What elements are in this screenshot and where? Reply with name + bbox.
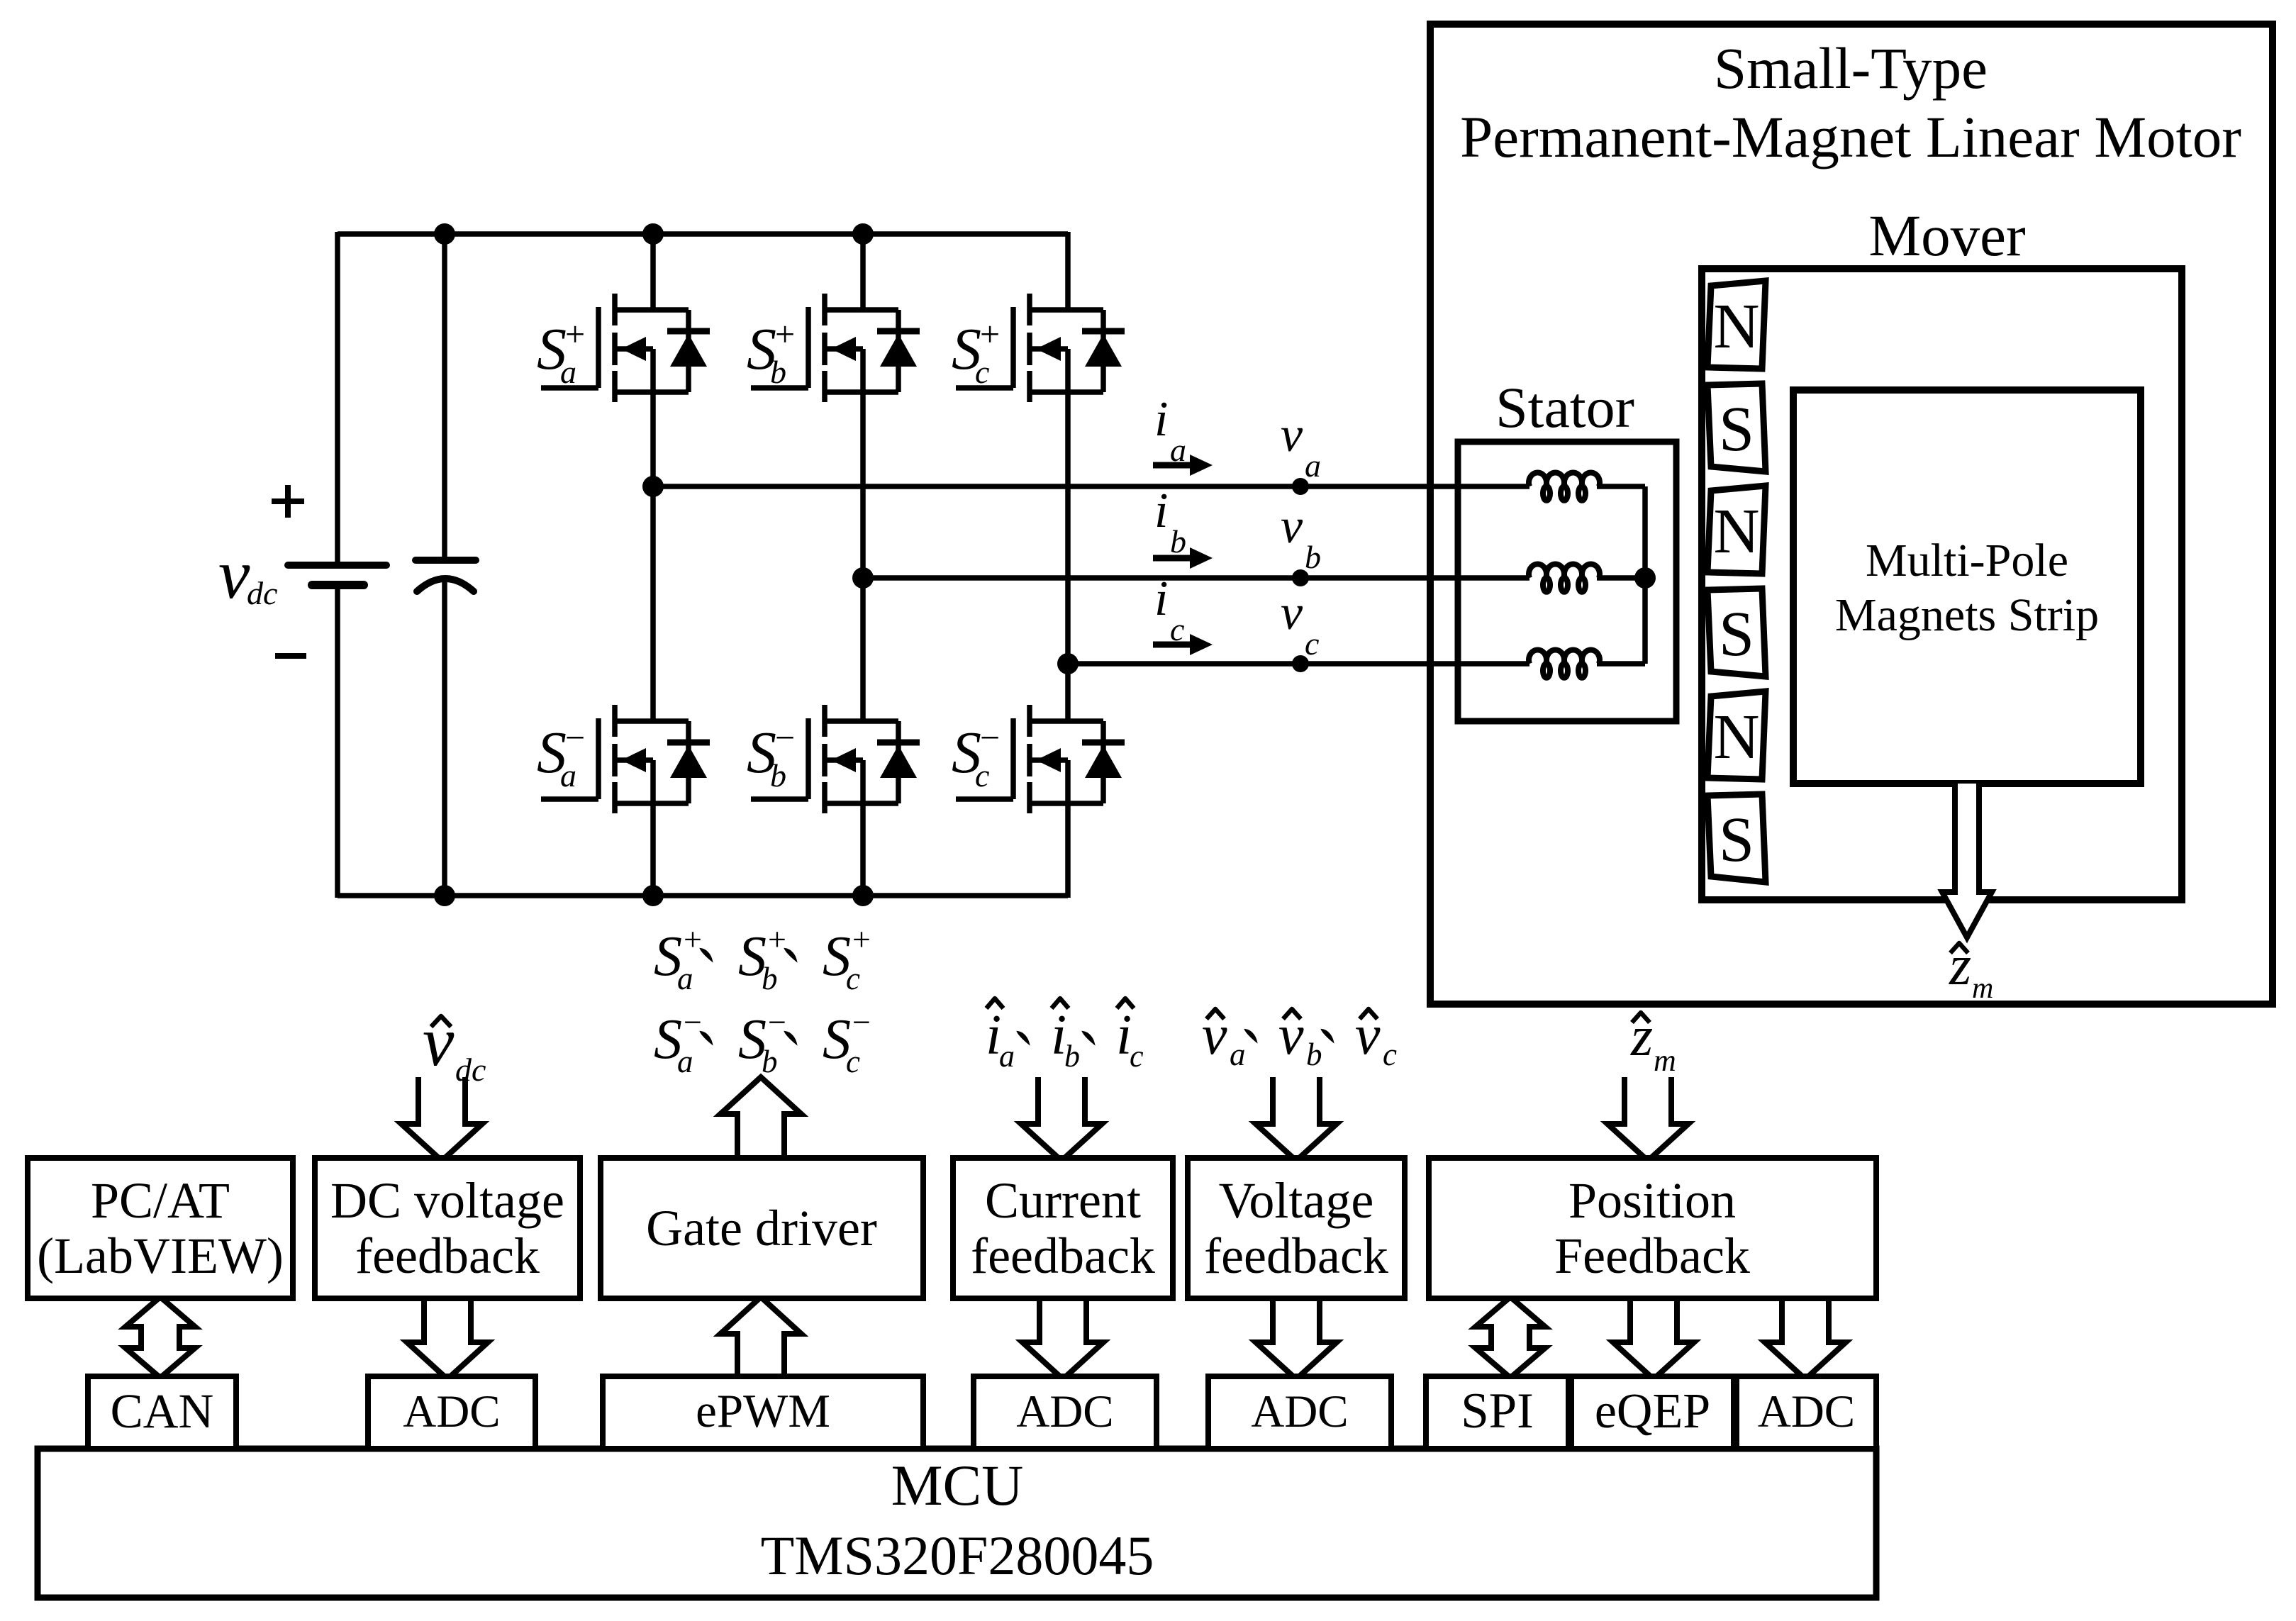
svg-text:a: a: [1305, 447, 1321, 484]
svg-text:v: v: [1202, 1004, 1227, 1066]
svg-text:ADC: ADC: [1251, 1386, 1348, 1437]
transistor S_b-: [822, 705, 827, 737]
svg-text:ADC: ADC: [1758, 1386, 1855, 1437]
svg-text:a: a: [1230, 1037, 1246, 1072]
svg-text:Feedback: Feedback: [1554, 1227, 1750, 1284]
svg-text:SPI: SPI: [1461, 1383, 1534, 1439]
wire neutral bus: [1642, 486, 1648, 664]
svg-text:−: −: [684, 1004, 702, 1040]
svg-text:+: +: [684, 921, 702, 957]
node phase c: [1057, 653, 1079, 674]
svg-text:Mover: Mover: [1868, 203, 2025, 268]
svg-text:c: c: [846, 1044, 860, 1079]
svg-text:m: m: [1972, 972, 1993, 1005]
svg-text:c: c: [975, 757, 989, 793]
block ADC (current): [974, 1376, 1157, 1449]
block CAN: [88, 1376, 236, 1449]
wire phase b: [863, 575, 1529, 581]
wire leg a drain (top): [650, 232, 656, 312]
arrow Position Feedback to eQEP: [1613, 1298, 1694, 1379]
Multi-Pole Magnets Strip box: [1793, 390, 2141, 784]
magnet strip (N/S cells): [1707, 281, 1766, 369]
svg-text:S: S: [1719, 805, 1754, 875]
junction top rail / leg a: [642, 223, 664, 245]
battery minus sign: [275, 653, 306, 659]
svg-text:b: b: [770, 354, 786, 390]
svg-text:c: c: [1383, 1037, 1397, 1072]
wire leg a middle: [650, 390, 656, 723]
svg-text:Stator: Stator: [1495, 375, 1634, 440]
junction bottom rail / capacitor: [434, 885, 455, 906]
svg-text:+: +: [565, 314, 585, 354]
arrow v to Voltage feedback: [1256, 1077, 1337, 1161]
svg-text:b: b: [762, 961, 778, 996]
svg-text:DC voltage: DC voltage: [330, 1172, 564, 1229]
motor outer box: Small-Type Permanent-Magnet Linear Motor: [1430, 24, 2273, 1004]
arrow Current feedback to ADC: [1022, 1298, 1103, 1379]
svg-text:a: a: [677, 1044, 693, 1079]
junction bottom rail / leg b: [852, 885, 874, 906]
transistor S_b+: [822, 294, 827, 325]
wire leg b middle: [860, 390, 866, 723]
svg-text:−: −: [980, 718, 1000, 757]
svg-text:CAN: CAN: [111, 1384, 214, 1438]
wire coil c to neutral: [1597, 661, 1645, 667]
wire coil b to neutral: [1597, 575, 1645, 581]
wire phase c: [1068, 661, 1529, 667]
svg-text:m: m: [1654, 1043, 1676, 1078]
junction bottom rail / leg a: [642, 885, 664, 906]
svg-text:S: S: [1719, 394, 1754, 464]
svg-text:b: b: [1306, 1037, 1322, 1072]
svg-text:+: +: [852, 921, 871, 957]
arrow mover position output: [1942, 784, 1992, 937]
svg-text:Small-Type: Small-Type: [1714, 35, 1988, 101]
block ADC (position): [1737, 1376, 1876, 1449]
wire leg c drain (top): [1065, 232, 1071, 312]
svg-text:c: c: [975, 354, 989, 390]
svg-text:−: −: [768, 1004, 786, 1040]
svg-text:+: +: [775, 314, 795, 354]
arrow Position Feedback <-> SPI: [1476, 1297, 1545, 1378]
battery plus sign: [272, 498, 304, 504]
svg-text:−: −: [565, 718, 585, 757]
wire top DC rail: [338, 231, 1068, 237]
node v_b: [1292, 569, 1309, 586]
svg-text:ePWM: ePWM: [696, 1385, 830, 1437]
arrow gate signals up from Gate driver: [720, 1077, 801, 1161]
svg-text:eQEP: eQEP: [1595, 1384, 1710, 1439]
svg-text:a: a: [560, 354, 576, 390]
svg-text:N: N: [1714, 496, 1760, 567]
node neutral: [1634, 567, 1656, 589]
block ADC (voltage): [1208, 1376, 1391, 1449]
node v_c: [1292, 655, 1309, 672]
node phase b: [852, 567, 874, 589]
svg-text:v: v: [423, 1002, 455, 1081]
svg-text:S: S: [1719, 599, 1754, 669]
svg-text:+: +: [980, 314, 1000, 354]
svg-text:Permanent-Magnet Linear Motor: Permanent-Magnet Linear Motor: [1460, 104, 2241, 169]
block MCU TMS320F280045: [38, 1449, 1876, 1598]
arrow v_dc to DC voltage feedback: [401, 1077, 482, 1161]
svg-text:TMS320F280045: TMS320F280045: [761, 1525, 1154, 1586]
svg-text:a: a: [999, 1039, 1015, 1074]
svg-text:Voltage: Voltage: [1219, 1172, 1374, 1229]
block eQEP: [1571, 1376, 1734, 1449]
block PC/AT (LabVIEW): [28, 1158, 293, 1298]
svg-text:dc: dc: [247, 575, 277, 611]
block ADC (dc voltage): [368, 1376, 535, 1449]
svg-text:i: i: [1154, 484, 1168, 538]
svg-text:b: b: [762, 1044, 778, 1079]
arrow Position Feedback to ADC: [1765, 1298, 1846, 1379]
block Gate driver: [601, 1158, 923, 1298]
transistor S_c+: [1027, 294, 1032, 325]
svg-text:v: v: [1281, 499, 1303, 554]
node v_a: [1292, 478, 1309, 495]
wire leg c source (bottom): [1065, 801, 1071, 898]
arrow PC/AT <-> CAN: [126, 1297, 195, 1378]
inductor coil phase c: [1529, 650, 1600, 678]
svg-text:v: v: [1278, 1004, 1304, 1066]
junction top rail / capacitor: [434, 223, 455, 245]
block ePWM: [603, 1376, 923, 1449]
svg-text:(LabVIEW): (LabVIEW): [37, 1227, 284, 1284]
svg-text:MCU: MCU: [891, 1453, 1024, 1517]
svg-text:b: b: [1170, 523, 1186, 559]
svg-text:N: N: [1714, 702, 1760, 772]
svg-text:b: b: [1064, 1039, 1080, 1074]
svg-text:Current: Current: [985, 1172, 1141, 1229]
svg-text:i: i: [1154, 572, 1168, 626]
svg-text:Gate driver: Gate driver: [646, 1200, 877, 1257]
inductor coil phase b: [1529, 564, 1600, 592]
wire leg b drain (top): [860, 232, 866, 312]
svg-text:v: v: [1281, 586, 1303, 640]
node phase a: [642, 476, 664, 497]
svg-text:c: c: [1130, 1039, 1144, 1074]
svg-text:Position: Position: [1568, 1172, 1736, 1229]
svg-text:a: a: [560, 757, 576, 793]
svg-text:a: a: [677, 961, 693, 996]
transistor S_a+: [612, 294, 618, 325]
svg-text:b: b: [770, 757, 786, 793]
arrow z_m to Position Feedback: [1607, 1077, 1688, 1161]
svg-text:+: +: [768, 921, 786, 957]
transistor S_c-: [1027, 705, 1032, 737]
wire coil a to neutral: [1597, 484, 1645, 489]
svg-text:ADC: ADC: [403, 1386, 500, 1437]
capacitor C1: [442, 234, 447, 560]
arrow DC voltage feedback to ADC: [407, 1298, 488, 1379]
arrow Voltage feedback to ADC: [1256, 1298, 1337, 1379]
svg-text:PC/AT: PC/AT: [91, 1172, 230, 1229]
wire leg c middle: [1065, 390, 1071, 723]
svg-text:N: N: [1714, 291, 1760, 362]
arrow ePWM up to Gate driver: [720, 1297, 801, 1376]
svg-text:v: v: [1355, 1004, 1381, 1066]
block SPI: [1426, 1376, 1568, 1449]
svg-text:ADC: ADC: [1016, 1386, 1113, 1437]
svg-text:c: c: [846, 961, 860, 996]
svg-text:c: c: [1305, 625, 1319, 662]
battery v_dc: [335, 232, 340, 564]
transistor S_a-: [612, 705, 618, 737]
svg-text:b: b: [1305, 539, 1321, 575]
inductor coil phase a: [1529, 473, 1600, 501]
junction top rail / leg b: [852, 223, 874, 245]
svg-text:Magnets Strip: Magnets Strip: [1835, 589, 2099, 641]
svg-text:v: v: [1281, 408, 1303, 462]
svg-text:feedback: feedback: [1204, 1227, 1388, 1284]
svg-text:−: −: [775, 718, 795, 757]
stator box: [1458, 442, 1676, 721]
mover box: [1702, 269, 2182, 900]
svg-text:Multi-Pole: Multi-Pole: [1866, 535, 2068, 586]
svg-text:i: i: [1154, 392, 1168, 447]
arrow i to Current feedback: [1021, 1077, 1102, 1161]
block DC voltage feedback: [315, 1158, 580, 1298]
wire bottom DC rail: [338, 893, 1068, 898]
wire phase a: [653, 484, 1529, 489]
block Voltage feedback: [1188, 1158, 1405, 1298]
svg-text:v: v: [218, 535, 250, 613]
svg-text:dc: dc: [455, 1052, 486, 1088]
block Current feedback: [953, 1158, 1173, 1298]
wire leg b source (bottom): [860, 801, 866, 898]
wire leg a source (bottom): [650, 801, 656, 898]
block Position Feedback: [1429, 1158, 1876, 1298]
svg-text:feedback: feedback: [971, 1227, 1155, 1284]
svg-text:feedback: feedback: [355, 1227, 540, 1284]
svg-text:−: −: [852, 1004, 871, 1040]
